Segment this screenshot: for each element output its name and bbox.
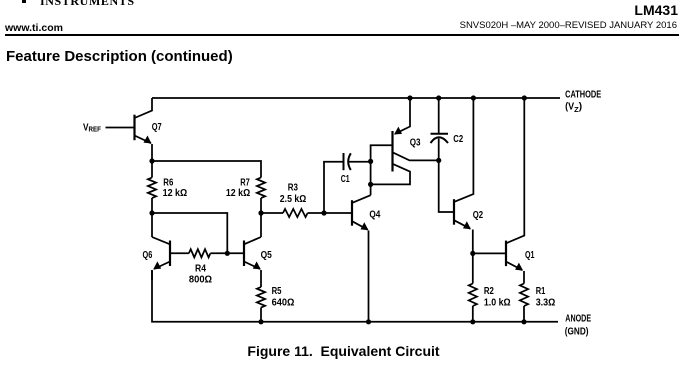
doc number line: [460, 21, 677, 31]
node: R7 bottom: [258, 210, 263, 215]
node: Q2 collector on cathode rail: [471, 95, 476, 100]
svg-text:C2: C2: [453, 134, 463, 145]
Figure caption: [1, 344, 685, 358]
www.ti.com: [5, 23, 63, 34]
node: R1 bottom on anode rail: [521, 319, 526, 324]
svg-text:2.5 kΩ: 2.5 kΩ: [280, 194, 306, 205]
node: R4 / Q5 base junction: [225, 251, 230, 256]
node: R5 bottom on anode rail: [258, 319, 263, 324]
transistor Q6: [152, 237, 189, 280]
svg-text:Q7: Q7: [152, 122, 162, 133]
TI logo bullet fragment: [22, 0, 26, 3]
node: R2 bottom on anode rail: [470, 319, 475, 324]
resistor R3: [261, 209, 324, 217]
transistor Q4: [352, 195, 371, 322]
svg-text:12 kΩ: 12 kΩ: [163, 188, 188, 199]
wire C2 node down to Q2 base: [439, 160, 454, 212]
svg-text:Q4: Q4: [369, 210, 380, 221]
transistor Q3 (PNP, dual collector): [371, 98, 439, 184]
node: Q2 emitter / R2 / Q1 base: [470, 251, 475, 256]
svg-text:Q3: Q3: [410, 138, 421, 149]
svg-text:(VZ): (VZ): [565, 101, 582, 114]
svg-text:640Ω: 640Ω: [272, 297, 295, 308]
node: Q1 collector on cathode rail: [522, 95, 527, 100]
anode bottom rail: [152, 270, 558, 322]
node: R3 / C1 / Q4 base junction: [321, 210, 326, 215]
resistor R2: [469, 253, 477, 321]
node: Q7 emitter / R6 / R7 junction: [149, 158, 154, 163]
header rule: [5, 34, 679, 37]
node: Q3 emitter on cathode rail: [407, 95, 412, 100]
svg-text:CATHODE: CATHODE: [565, 89, 601, 100]
resistor R6: [148, 161, 156, 213]
resistor R4: [189, 249, 211, 257]
wire junction to Q4 base: [324, 212, 352, 214]
svg-text:(GND): (GND): [565, 327, 589, 338]
svg-text:3.3Ω: 3.3Ω: [536, 297, 556, 308]
TI logo fragment (bottom of INSTRUMENTS word, cut at page top): [40, 0, 135, 9]
wire R6 bottom to Q5 base junction: [152, 213, 227, 253]
transistor Q2: [454, 98, 473, 253]
svg-text:800Ω: 800Ω: [189, 274, 212, 285]
node: C1 right / Q3 base line: [368, 159, 373, 164]
svg-text:R3: R3: [288, 183, 299, 194]
cathode top rail: [152, 97, 560, 99]
svg-text:R7: R7: [240, 178, 250, 189]
capacitor C2: [431, 98, 449, 160]
svg-text:Q2: Q2: [473, 210, 484, 221]
Feature Description heading: [6, 49, 233, 64]
svg-text:Q5: Q5: [261, 250, 273, 261]
capacitor C1: [344, 153, 371, 170]
LM431 part number: [634, 3, 678, 17]
wire to R7 top: [152, 161, 261, 178]
transistor Q7: [106, 98, 153, 161]
node: Q4 emitter on anode rail: [366, 319, 371, 324]
wire R6 node down to Q6 collector: [151, 213, 153, 237]
svg-text:Q1: Q1: [525, 250, 535, 261]
svg-text:Q6: Q6: [143, 250, 153, 261]
wire R4 to Q5 base: [210, 252, 244, 254]
svg-text:R6: R6: [163, 178, 173, 189]
node: C2 bottom / Q3 collector / Q2 base: [436, 158, 441, 163]
svg-text:1.0 kΩ: 1.0 kΩ: [484, 297, 511, 308]
svg-text:12 kΩ: 12 kΩ: [226, 188, 250, 199]
wire Q5 collector to R7 bottom: [260, 213, 262, 237]
svg-text:ANODE: ANODE: [565, 314, 591, 325]
resistor R5: [257, 287, 265, 322]
transistor Q1: [506, 98, 524, 284]
node: C2 top on cathode rail: [436, 95, 441, 100]
svg-text:R1: R1: [536, 286, 546, 297]
svg-text:R4: R4: [195, 264, 206, 275]
node: R6 bottom: [149, 210, 154, 215]
capacitor C1 branch wire: [324, 162, 344, 213]
transistor Q5: [244, 237, 261, 287]
svg-text:R5: R5: [272, 286, 282, 297]
wire node to Q1 base: [473, 252, 506, 254]
wire Q4 collector up to Q3 base line: [371, 145, 393, 195]
svg-text:C1: C1: [341, 174, 350, 185]
svg-text:REF: REF: [89, 125, 102, 134]
resistor R7: [257, 178, 265, 214]
resistor R1: [520, 284, 528, 322]
svg-text:R2: R2: [484, 286, 494, 297]
node: Q3 collector2 tie: [368, 182, 373, 187]
